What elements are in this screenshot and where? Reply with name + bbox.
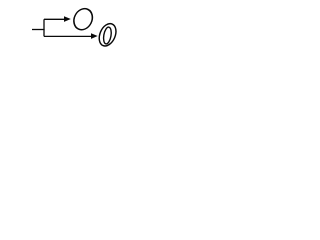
state ellipse O1 — [70, 6, 95, 33]
accepting state outer ellipse O2 — [96, 21, 119, 48]
wire fork vertical — [43, 19, 45, 36]
arrowhead bottom — [91, 33, 98, 39]
wire top branch — [44, 18, 65, 20]
state ellipse O1 thick side — [71, 5, 96, 32]
arrowhead top — [64, 16, 71, 22]
wire input segment — [32, 29, 45, 31]
accepting state inner ellipse O2 — [102, 27, 112, 45]
wire bottom branch — [44, 35, 92, 37]
